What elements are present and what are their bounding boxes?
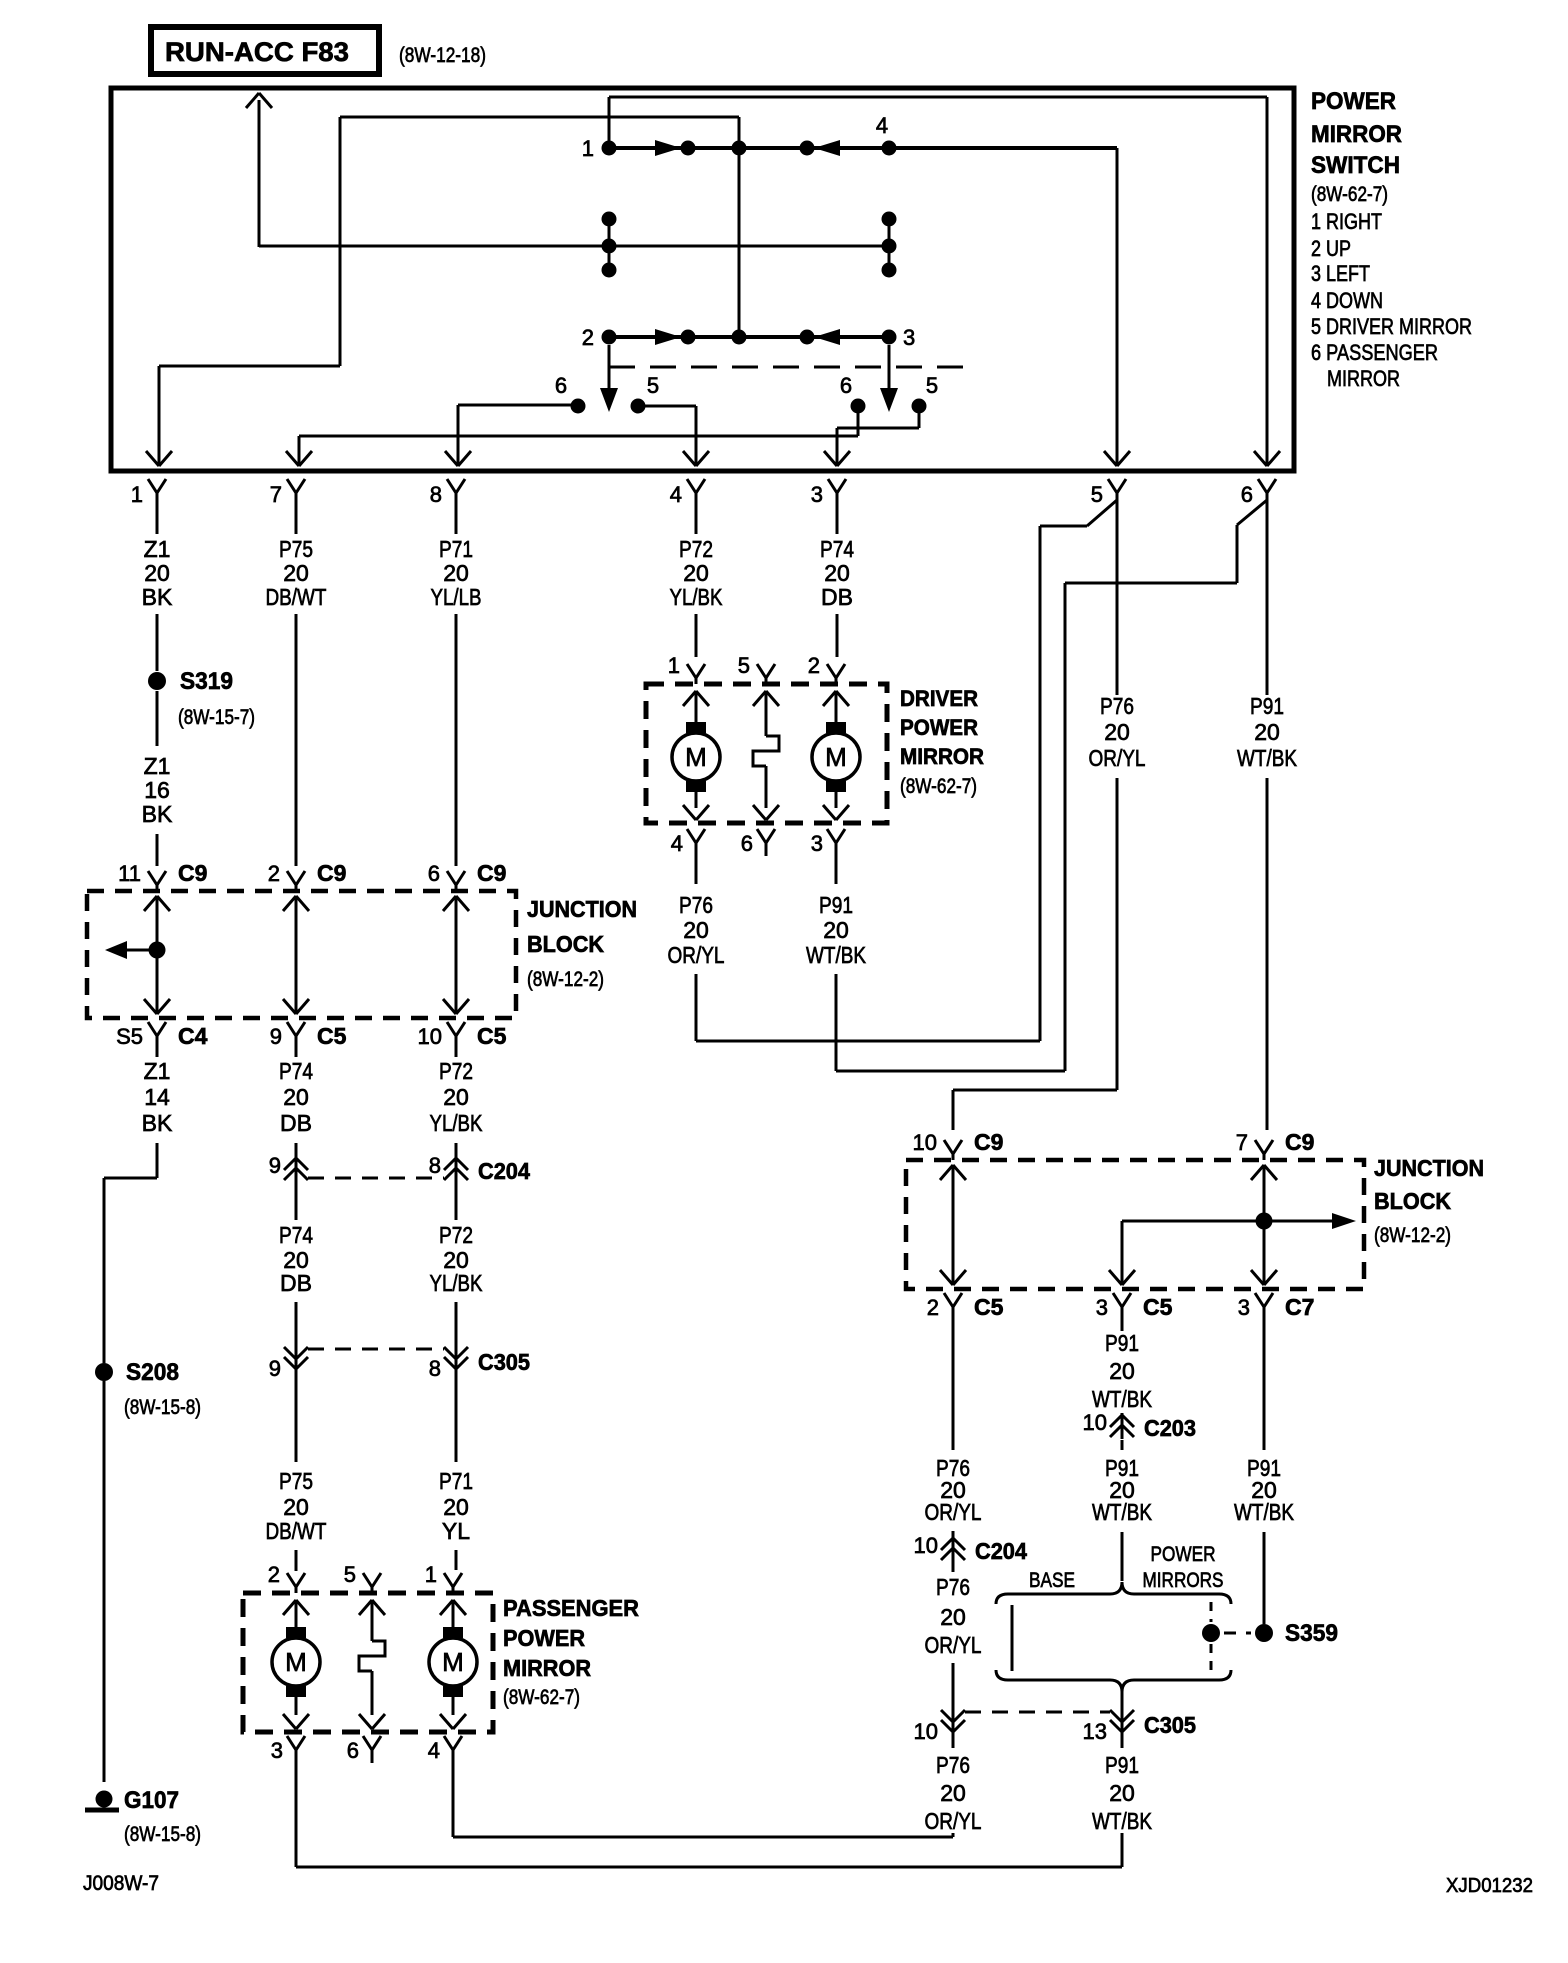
svg-text:16: 16 (144, 777, 170, 803)
svg-text:DB: DB (280, 1270, 312, 1296)
svg-text:3 LEFT: 3 LEFT (1311, 261, 1370, 286)
svg-text:10: 10 (418, 1024, 442, 1049)
svg-text:OR/YL: OR/YL (925, 1499, 982, 1525)
svg-text:6: 6 (347, 1738, 359, 1763)
svg-text:9: 9 (270, 1024, 282, 1049)
svg-text:P74: P74 (279, 1222, 313, 1248)
svg-text:(8W-62-7): (8W-62-7) (503, 1686, 580, 1709)
svg-text:2: 2 (268, 861, 280, 886)
svg-text:RUN-ACC F83: RUN-ACC F83 (165, 37, 349, 67)
svg-text:OR/YL: OR/YL (925, 1808, 982, 1834)
svg-text:JUNCTION: JUNCTION (1374, 1155, 1484, 1181)
svg-text:OR/YL: OR/YL (1089, 745, 1146, 771)
svg-text:10: 10 (914, 1719, 938, 1744)
svg-text:P75: P75 (279, 1468, 313, 1494)
svg-text:C203: C203 (1144, 1415, 1196, 1441)
svg-text:C9: C9 (178, 860, 207, 886)
svg-text:(8W-15-7): (8W-15-7) (178, 706, 255, 729)
svg-text:BK: BK (142, 801, 173, 827)
svg-text:5 DRIVER MIRROR: 5 DRIVER MIRROR (1311, 314, 1472, 339)
svg-text:DRIVER: DRIVER (900, 686, 978, 711)
svg-text:YL/BK: YL/BK (670, 584, 724, 610)
svg-text:M: M (825, 742, 847, 772)
svg-text:8: 8 (429, 1153, 441, 1178)
svg-text:Z1: Z1 (144, 1058, 171, 1084)
svg-text:6 PASSENGER: 6 PASSENGER (1311, 340, 1438, 365)
svg-text:G107: G107 (124, 1787, 179, 1814)
svg-text:P91: P91 (1250, 693, 1284, 719)
svg-text:9: 9 (269, 1356, 281, 1381)
svg-text:P71: P71 (439, 1468, 473, 1494)
svg-text:2 UP: 2 UP (1311, 236, 1351, 261)
svg-text:P72: P72 (439, 1058, 473, 1084)
svg-text:4: 4 (671, 831, 683, 856)
svg-text:20: 20 (283, 1494, 309, 1520)
svg-text:5: 5 (926, 373, 938, 398)
svg-text:MIRROR: MIRROR (1311, 121, 1402, 148)
svg-text:1: 1 (425, 1562, 437, 1587)
svg-text:C4: C4 (178, 1023, 208, 1049)
svg-text:MIRROR: MIRROR (503, 1655, 591, 1681)
svg-text:5: 5 (738, 653, 750, 678)
svg-text:C9: C9 (317, 860, 346, 886)
svg-text:C5: C5 (477, 1023, 507, 1049)
svg-text:P75: P75 (279, 536, 313, 562)
svg-text:(8W-12-18): (8W-12-18) (399, 44, 486, 67)
svg-text:P76: P76 (1100, 693, 1134, 719)
svg-text:MIRRORS: MIRRORS (1143, 1569, 1224, 1592)
svg-text:4: 4 (428, 1738, 440, 1763)
svg-text:20: 20 (824, 560, 850, 586)
svg-text:(8W-12-2): (8W-12-2) (1374, 1224, 1451, 1247)
svg-text:7: 7 (270, 482, 282, 507)
svg-text:POWER: POWER (503, 1625, 585, 1651)
svg-text:20: 20 (283, 560, 309, 586)
svg-text:YL/LB: YL/LB (431, 584, 482, 610)
svg-text:P91: P91 (1105, 1330, 1139, 1356)
svg-text:WT/BK: WT/BK (806, 942, 867, 968)
svg-text:C9: C9 (477, 860, 506, 886)
svg-text:SWITCH: SWITCH (1311, 152, 1400, 179)
svg-text:C7: C7 (1285, 1294, 1314, 1320)
svg-text:J008W-7: J008W-7 (83, 1872, 159, 1895)
svg-text:P74: P74 (820, 536, 854, 562)
svg-text:20: 20 (144, 560, 170, 586)
svg-text:C5: C5 (1143, 1294, 1173, 1320)
svg-text:BLOCK: BLOCK (527, 931, 604, 957)
svg-text:C305: C305 (478, 1349, 530, 1375)
svg-text:WT/BK: WT/BK (1237, 745, 1298, 771)
svg-text:S319: S319 (180, 668, 233, 695)
svg-text:P91: P91 (1105, 1752, 1139, 1778)
svg-text:DB/WT: DB/WT (266, 1518, 327, 1544)
svg-text:POWER: POWER (1311, 88, 1396, 115)
svg-text:M: M (285, 1647, 307, 1677)
svg-text:(8W-15-8): (8W-15-8) (124, 1396, 201, 1419)
svg-text:20: 20 (1109, 1358, 1135, 1384)
svg-text:20: 20 (1109, 1780, 1135, 1806)
svg-text:20: 20 (443, 560, 469, 586)
svg-text:YL/BK: YL/BK (430, 1270, 484, 1296)
svg-text:20: 20 (940, 1604, 966, 1630)
svg-text:C9: C9 (1285, 1129, 1314, 1155)
svg-text:M: M (442, 1647, 464, 1677)
svg-text:2: 2 (582, 325, 594, 350)
svg-text:1: 1 (582, 136, 594, 161)
svg-text:POWER: POWER (1151, 1543, 1216, 1566)
svg-text:C9: C9 (974, 1129, 1003, 1155)
svg-text:C204: C204 (478, 1158, 530, 1184)
svg-text:C204: C204 (975, 1538, 1027, 1564)
svg-text:S359: S359 (1285, 1620, 1338, 1647)
svg-text:10: 10 (1083, 1410, 1107, 1435)
svg-text:5: 5 (344, 1562, 356, 1587)
svg-text:5: 5 (647, 373, 659, 398)
svg-text:6: 6 (428, 861, 440, 886)
svg-text:20: 20 (1254, 719, 1280, 745)
svg-text:4: 4 (670, 482, 682, 507)
svg-text:(8W-62-7): (8W-62-7) (900, 775, 977, 798)
svg-text:20: 20 (283, 1084, 309, 1110)
svg-text:BASE: BASE (1029, 1569, 1075, 1592)
svg-text:8: 8 (429, 1356, 441, 1381)
svg-text:3: 3 (271, 1738, 283, 1763)
svg-text:1: 1 (131, 482, 143, 507)
svg-text:WT/BK: WT/BK (1234, 1499, 1295, 1525)
svg-text:S208: S208 (126, 1359, 179, 1386)
svg-text:DB: DB (280, 1110, 312, 1136)
svg-text:6: 6 (741, 831, 753, 856)
svg-text:6: 6 (555, 373, 567, 398)
svg-text:P91: P91 (819, 892, 853, 918)
svg-text:BK: BK (142, 1110, 173, 1136)
svg-text:P76: P76 (936, 1574, 970, 1600)
svg-text:20: 20 (443, 1494, 469, 1520)
svg-text:3: 3 (811, 482, 823, 507)
svg-text:(8W-15-8): (8W-15-8) (124, 1823, 201, 1846)
svg-text:MIRROR: MIRROR (1327, 366, 1400, 391)
svg-text:OR/YL: OR/YL (668, 942, 725, 968)
svg-text:2: 2 (808, 653, 820, 678)
svg-text:M: M (685, 742, 707, 772)
svg-text:POWER: POWER (900, 715, 978, 740)
svg-text:10: 10 (914, 1533, 938, 1558)
svg-text:2: 2 (927, 1295, 939, 1320)
svg-text:BLOCK: BLOCK (1374, 1188, 1451, 1214)
svg-text:Z1: Z1 (144, 753, 171, 779)
svg-text:Z1: Z1 (144, 536, 171, 562)
svg-text:6: 6 (1241, 482, 1253, 507)
svg-text:8: 8 (430, 482, 442, 507)
svg-text:3: 3 (1238, 1295, 1250, 1320)
svg-text:OR/YL: OR/YL (925, 1632, 982, 1658)
svg-text:7: 7 (1236, 1130, 1248, 1155)
svg-text:WT/BK: WT/BK (1092, 1499, 1153, 1525)
svg-text:3: 3 (811, 831, 823, 856)
svg-text:13: 13 (1083, 1719, 1107, 1744)
svg-text:9: 9 (269, 1153, 281, 1178)
svg-text:WT/BK: WT/BK (1092, 1808, 1153, 1834)
svg-text:JUNCTION: JUNCTION (527, 896, 637, 922)
svg-text:1 RIGHT: 1 RIGHT (1311, 209, 1382, 234)
svg-text:1: 1 (668, 653, 680, 678)
svg-text:BK: BK (142, 584, 173, 610)
svg-text:4 DOWN: 4 DOWN (1311, 288, 1383, 313)
svg-text:10: 10 (913, 1130, 937, 1155)
svg-text:P72: P72 (439, 1222, 473, 1248)
svg-text:(8W-12-2): (8W-12-2) (527, 968, 604, 991)
svg-text:WT/BK: WT/BK (1092, 1386, 1153, 1412)
svg-text:2: 2 (268, 1562, 280, 1587)
svg-text:P74: P74 (279, 1058, 313, 1084)
svg-text:YL: YL (442, 1518, 470, 1544)
svg-text:5: 5 (1091, 482, 1103, 507)
svg-text:C5: C5 (974, 1294, 1004, 1320)
svg-text:(8W-62-7): (8W-62-7) (1311, 183, 1388, 206)
svg-text:3: 3 (1096, 1295, 1108, 1320)
svg-text:3: 3 (903, 325, 915, 350)
svg-text:20: 20 (1104, 719, 1130, 745)
svg-text:20: 20 (683, 917, 709, 943)
svg-text:DB/WT: DB/WT (266, 584, 327, 610)
svg-text:P76: P76 (936, 1752, 970, 1778)
svg-text:20: 20 (443, 1084, 469, 1110)
svg-text:DB: DB (821, 584, 853, 610)
svg-text:20: 20 (823, 917, 849, 943)
svg-text:14: 14 (144, 1084, 170, 1110)
svg-text:YL/BK: YL/BK (430, 1110, 484, 1136)
svg-text:P76: P76 (679, 892, 713, 918)
svg-text:P71: P71 (439, 536, 473, 562)
svg-text:C5: C5 (317, 1023, 347, 1049)
svg-text:6: 6 (840, 373, 852, 398)
svg-text:P72: P72 (679, 536, 713, 562)
svg-text:C305: C305 (1144, 1712, 1196, 1738)
svg-text:4: 4 (876, 113, 888, 138)
svg-text:20: 20 (683, 560, 709, 586)
svg-text:PASSENGER: PASSENGER (503, 1595, 639, 1621)
svg-text:20: 20 (940, 1780, 966, 1806)
svg-text:11: 11 (118, 861, 141, 886)
svg-text:S5: S5 (116, 1024, 143, 1049)
svg-text:XJD01232: XJD01232 (1446, 1875, 1533, 1897)
svg-text:MIRROR: MIRROR (900, 744, 984, 769)
